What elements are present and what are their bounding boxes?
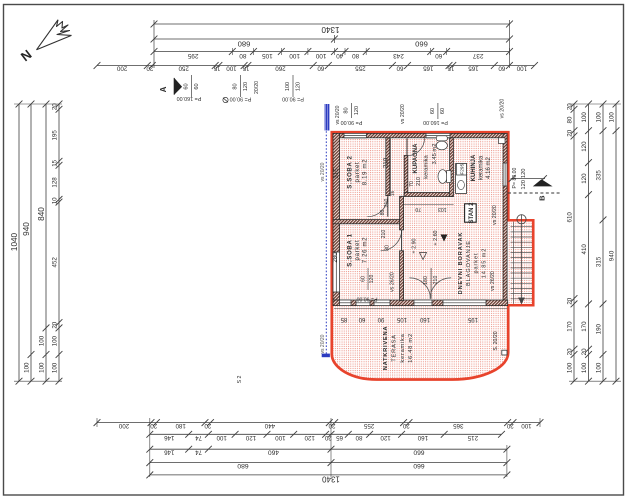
svg-text:60: 60 — [440, 108, 446, 114]
svg-text:120: 120 — [295, 82, 301, 91]
svg-text:280: 280 — [332, 252, 339, 263]
svg-text:165: 165 — [468, 64, 479, 71]
svg-text:KUHINJA: KUHINJA — [471, 154, 477, 181]
svg-text:P= 80.00: P= 80.00 — [512, 167, 518, 188]
svg-text:160: 160 — [417, 434, 428, 441]
svg-text:P= 160.00: P= 160.00 — [423, 119, 448, 125]
svg-text:100: 100 — [285, 82, 291, 91]
svg-text:20: 20 — [52, 321, 59, 328]
svg-text:8.19 m2: 8.19 m2 — [363, 159, 369, 186]
svg-text:120: 120 — [521, 168, 527, 178]
svg-text:60: 60 — [317, 64, 324, 71]
svg-text:60: 60 — [498, 64, 505, 71]
svg-text:100: 100 — [216, 434, 227, 441]
svg-text:P= 90.00: P= 90.00 — [282, 96, 304, 102]
svg-text:210: 210 — [381, 230, 387, 239]
svg-text:180: 180 — [175, 422, 186, 429]
svg-text:190: 190 — [595, 323, 602, 334]
svg-text:80: 80 — [239, 52, 247, 59]
svg-text:100: 100 — [566, 362, 573, 373]
svg-text:STAN 2: STAN 2 — [469, 202, 475, 224]
svg-text:B: B — [538, 195, 547, 201]
svg-text:60: 60 — [184, 83, 190, 89]
svg-text:120: 120 — [243, 82, 249, 91]
svg-text:20: 20 — [566, 348, 573, 355]
svg-text:335: 335 — [595, 170, 602, 181]
svg-text:200: 200 — [118, 422, 129, 429]
svg-text:100: 100 — [226, 64, 237, 71]
svg-text:20: 20 — [150, 422, 157, 429]
svg-text:660: 660 — [413, 449, 424, 456]
svg-text:20: 20 — [328, 422, 335, 429]
svg-text:120: 120 — [304, 434, 315, 441]
svg-text:120: 120 — [354, 106, 360, 115]
svg-text:80: 80 — [385, 245, 391, 251]
svg-text:210: 210 — [416, 177, 422, 186]
svg-text:195: 195 — [467, 316, 478, 322]
svg-text:keramika: keramika — [479, 155, 485, 180]
svg-text:vs 20/20: vs 20/20 — [335, 105, 341, 124]
svg-text:100: 100 — [516, 64, 527, 71]
svg-text:146: 146 — [164, 449, 175, 456]
svg-text:TERASA: TERASA — [391, 334, 397, 361]
svg-text:BLAGOVANJE: BLAGOVANJE — [466, 240, 472, 286]
svg-text:120: 120 — [581, 141, 588, 152]
svg-text:165: 165 — [423, 64, 434, 71]
svg-text:70: 70 — [409, 181, 415, 187]
svg-text:S.SOBA 1: S.SOBA 1 — [348, 233, 354, 266]
svg-text:243: 243 — [393, 52, 404, 59]
svg-text:20: 20 — [52, 103, 59, 110]
svg-text:660: 660 — [413, 462, 425, 469]
svg-text:315: 315 — [333, 168, 340, 179]
svg-text:70: 70 — [415, 206, 421, 212]
svg-text:20: 20 — [146, 64, 153, 71]
svg-text:195: 195 — [52, 130, 59, 141]
svg-text:74: 74 — [195, 449, 202, 456]
svg-text:680: 680 — [237, 462, 249, 469]
svg-text:295: 295 — [187, 52, 198, 59]
svg-text:keramika: keramika — [400, 333, 406, 362]
svg-text:100: 100 — [289, 52, 300, 59]
svg-text:+ 2.60: + 2.60 — [433, 230, 439, 245]
svg-text:100: 100 — [39, 362, 46, 373]
svg-text:20: 20 — [324, 434, 331, 441]
svg-text:15: 15 — [52, 159, 59, 166]
svg-text:100: 100 — [52, 335, 59, 346]
svg-text:80: 80 — [344, 107, 350, 113]
svg-text:460: 460 — [268, 449, 279, 456]
svg-text:keramika: keramika — [424, 154, 430, 178]
svg-text:105: 105 — [262, 52, 273, 59]
svg-text:120: 120 — [245, 434, 256, 441]
svg-text:260: 260 — [275, 64, 286, 71]
svg-text:80: 80 — [566, 116, 573, 123]
svg-text:940: 940 — [608, 250, 615, 261]
svg-text:vs 20/20: vs 20/20 — [500, 99, 506, 119]
svg-text:255: 255 — [363, 422, 374, 429]
svg-text:160: 160 — [419, 316, 430, 322]
svg-text:100: 100 — [608, 112, 615, 123]
svg-text:4.16 m2: 4.16 m2 — [486, 157, 492, 179]
svg-text:120: 120 — [581, 173, 588, 184]
svg-text:410: 410 — [581, 244, 588, 255]
svg-text:100: 100 — [581, 362, 588, 373]
svg-text:170: 170 — [566, 321, 573, 332]
svg-text:parket: parket — [355, 240, 361, 261]
svg-text:P= 90.00: P= 90.00 — [341, 119, 363, 125]
svg-text:80: 80 — [352, 52, 360, 59]
svg-text:100: 100 — [315, 52, 326, 59]
svg-text:100: 100 — [52, 362, 59, 373]
svg-text:940: 940 — [22, 222, 31, 236]
svg-text:parket: parket — [355, 162, 361, 183]
svg-text:S. 20/20: S. 20/20 — [493, 331, 499, 350]
svg-text:100: 100 — [521, 422, 532, 429]
svg-text:210: 210 — [384, 199, 390, 208]
svg-text:452: 452 — [52, 257, 59, 268]
svg-text:S.SOBA 2: S.SOBA 2 — [348, 155, 354, 188]
svg-text:NATKRIVENA: NATKRIVENA — [383, 326, 389, 371]
svg-text:100: 100 — [595, 112, 602, 123]
svg-text:14.85 m2: 14.85 m2 — [481, 248, 487, 279]
svg-text:120: 120 — [380, 434, 391, 441]
svg-text:80: 80 — [380, 210, 386, 216]
svg-text:680: 680 — [238, 40, 251, 49]
svg-text:60: 60 — [435, 52, 443, 59]
svg-text:100: 100 — [595, 362, 602, 373]
svg-text:660: 660 — [415, 40, 428, 49]
svg-text:P= 90.00: P= 90.00 — [356, 296, 377, 302]
svg-text:80: 80 — [355, 434, 362, 441]
svg-text:20: 20 — [566, 103, 573, 110]
svg-text:KUPAONA: KUPAONA — [413, 143, 419, 174]
svg-text:170: 170 — [581, 321, 588, 332]
svg-text:F295: F295 — [460, 163, 466, 174]
svg-text:60: 60 — [361, 276, 367, 282]
svg-text:1040: 1040 — [10, 232, 19, 251]
svg-text:15: 15 — [447, 64, 454, 71]
svg-text:20: 20 — [506, 422, 513, 429]
svg-text:100: 100 — [24, 362, 31, 373]
svg-text:10: 10 — [52, 197, 59, 204]
svg-text:60: 60 — [358, 316, 365, 322]
svg-text:parket: parket — [474, 253, 480, 274]
svg-text:20: 20 — [402, 422, 409, 429]
svg-text:255: 255 — [355, 64, 366, 71]
svg-text:146: 146 — [164, 434, 175, 441]
svg-text:100: 100 — [275, 434, 286, 441]
svg-text:40: 40 — [336, 52, 344, 59]
svg-text:S 2: S 2 — [237, 375, 243, 383]
svg-text:20: 20 — [566, 297, 573, 304]
svg-text:315: 315 — [595, 256, 602, 267]
svg-text:237: 237 — [472, 52, 483, 59]
svg-text:80: 80 — [233, 83, 239, 89]
svg-text:20: 20 — [566, 129, 573, 136]
svg-text:15: 15 — [213, 64, 220, 71]
svg-text:1340: 1340 — [321, 25, 340, 34]
svg-text:200: 200 — [116, 64, 127, 71]
svg-text:vs 26/20: vs 26/20 — [390, 272, 396, 292]
svg-text:90: 90 — [377, 316, 384, 322]
svg-text:15: 15 — [390, 191, 396, 197]
svg-text:85: 85 — [340, 316, 347, 322]
svg-text:DNEVNI BORAVAK: DNEVNI BORAVAK — [458, 232, 464, 295]
svg-text:P= 90.00: P= 90.00 — [230, 96, 252, 102]
svg-text:103: 103 — [438, 206, 447, 212]
svg-text:20: 20 — [204, 422, 211, 429]
svg-text:7.26 m2: 7.26 m2 — [363, 237, 369, 264]
svg-text:15: 15 — [242, 64, 249, 71]
svg-text:180: 180 — [423, 276, 429, 285]
svg-text:A: A — [159, 86, 168, 92]
svg-text:74: 74 — [195, 434, 202, 441]
svg-text:210: 210 — [433, 276, 439, 285]
svg-text:120: 120 — [369, 275, 375, 284]
svg-text:100: 100 — [39, 335, 46, 346]
svg-text:+ 2.90: + 2.90 — [412, 238, 418, 253]
svg-text:60: 60 — [194, 83, 200, 89]
svg-text:210: 210 — [382, 157, 389, 168]
svg-text:vs 20/20: vs 20/20 — [320, 162, 326, 181]
svg-text:100: 100 — [581, 112, 588, 123]
svg-text:vs 20/20: vs 20/20 — [400, 104, 406, 124]
svg-text:P= 160.00: P= 160.00 — [177, 95, 202, 101]
svg-text:60: 60 — [430, 108, 436, 114]
svg-text:128: 128 — [52, 177, 59, 188]
svg-text:365: 365 — [453, 422, 464, 429]
svg-text:105: 105 — [396, 316, 407, 322]
svg-text:120: 120 — [521, 180, 527, 190]
svg-text:vs 26/20: vs 26/20 — [490, 271, 496, 291]
svg-text:16.48 m2: 16.48 m2 — [408, 333, 414, 363]
svg-text:215: 215 — [467, 434, 478, 441]
svg-text:vs 20/20: vs 20/20 — [492, 205, 498, 225]
svg-text:60: 60 — [396, 64, 403, 71]
svg-text:vs 20/20: vs 20/20 — [320, 334, 326, 353]
svg-text:610: 610 — [566, 212, 573, 223]
svg-text:20/20: 20/20 — [254, 81, 260, 94]
svg-text:440: 440 — [264, 422, 275, 429]
svg-text:20: 20 — [581, 348, 588, 355]
svg-text:250: 250 — [178, 64, 189, 71]
svg-text:65: 65 — [336, 434, 343, 441]
svg-text:840: 840 — [37, 207, 46, 221]
